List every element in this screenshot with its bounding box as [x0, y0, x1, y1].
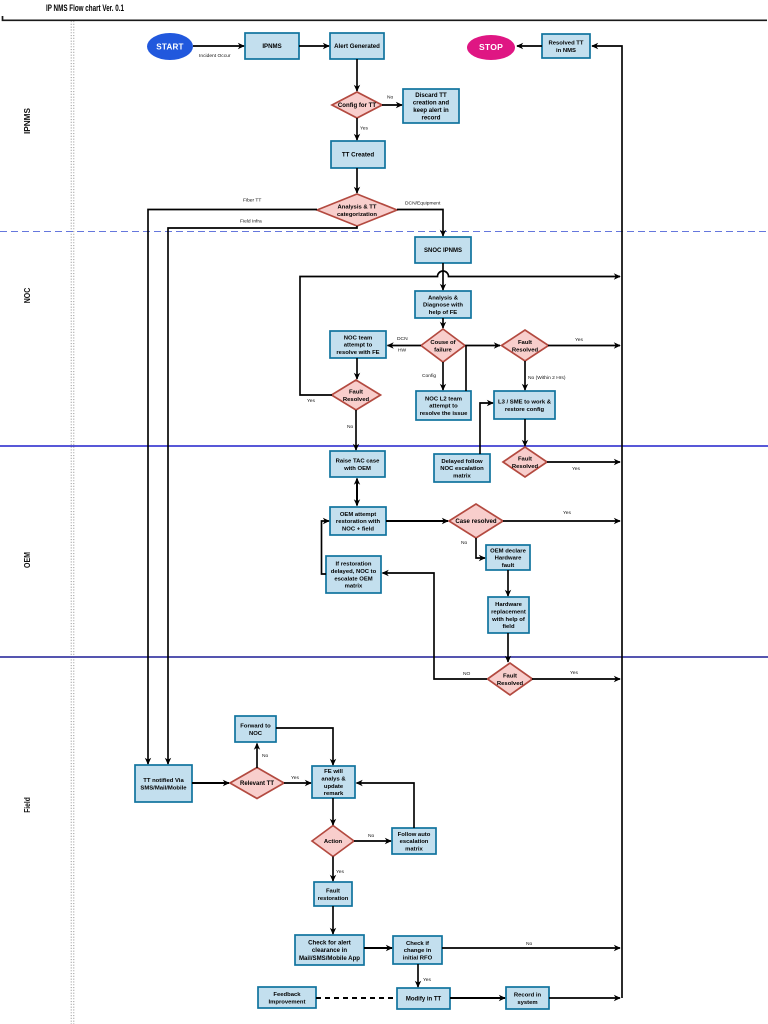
svg-text:Config: Config — [422, 373, 436, 379]
svg-text:Yes: Yes — [307, 398, 316, 404]
box: Raise TAC case with OEM — [330, 451, 385, 477]
svg-text:TT notified Via: TT notified Via — [143, 778, 184, 784]
svg-text:Config for TT: Config for TT — [338, 102, 377, 109]
svg-text:escalate OEM: escalate OEM — [334, 576, 372, 582]
wire: Forward to NOC to FE will box — [276, 728, 333, 765]
svg-text:SNOC IPNMS: SNOC IPNMS — [424, 248, 462, 254]
svg-text:Improvement: Improvement — [269, 999, 306, 1005]
lane divider IPNMS/NOC (dashed blue) — [0, 231, 768, 233]
svg-text:STOP: STOP — [479, 42, 503, 52]
wire: Check for alert to Check if change — [364, 947, 392, 949]
terminal: START — [147, 33, 193, 60]
svg-text:failure: failure — [434, 347, 452, 353]
svg-text:Fault: Fault — [503, 673, 517, 679]
wire: Resolved TT to STOP — [517, 45, 542, 47]
box: Alert Generated — [330, 33, 384, 59]
svg-text:in NMS: in NMS — [556, 48, 576, 54]
box: Fault restoration — [314, 882, 352, 906]
svg-text:clearance in: clearance in — [312, 947, 348, 954]
wire: Couse of failure DCN/HW to NOC team — [388, 336, 422, 354]
lane label: OEM — [22, 552, 32, 568]
svg-text:Resolved TT: Resolved TT — [548, 41, 583, 47]
svg-text:restoration with: restoration with — [336, 519, 381, 525]
svg-text:Discard TT: Discard TT — [415, 92, 447, 99]
decision: Analysis & TT categorization — [317, 194, 397, 226]
wire: Check if change Yes to Modify in TT — [418, 964, 432, 987]
box: NOC L2 team attempt to resolve the issue — [416, 391, 471, 420]
svg-text:with OEM: with OEM — [343, 466, 371, 472]
lane label: NOC — [22, 288, 32, 304]
box: Delayed follow NOC escalation matrix — [434, 454, 490, 482]
svg-text:START: START — [156, 42, 183, 51]
lane divider NOC/OEM (solid blue) — [0, 445, 768, 447]
svg-text:attempt to: attempt to — [344, 343, 373, 349]
svg-text:system: system — [517, 1000, 537, 1006]
svg-text:Action: Action — [324, 839, 343, 845]
box: Check if change in initial RFO — [393, 936, 442, 964]
wire: OEM attempt to Case resolved — [386, 520, 448, 522]
wire: Case resolved Yes to collector — [503, 510, 620, 521]
wire: FE will box to Action — [332, 798, 334, 825]
decision: Action — [312, 826, 354, 857]
svg-text:Yes: Yes — [575, 337, 584, 343]
box: Forward to NOC — [235, 716, 276, 742]
box: SNOC IPNMS — [415, 237, 471, 263]
wire: Analysis & Diagnose to Couse of failure — [442, 318, 444, 328]
box: Analysis & Diagnose with help of FE — [415, 291, 471, 318]
svg-text:DCN/Equipment: DCN/Equipment — [405, 201, 441, 207]
terminal: STOP — [467, 35, 515, 60]
decision: Config for TT — [332, 92, 382, 118]
wire: NOC team to Fault Resolved (NOC team) — [356, 358, 358, 379]
wire: Modify in TT to Record in system — [450, 997, 505, 999]
svg-text:IP NMS Flow chart Ver. 0.1: IP NMS Flow chart Ver. 0.1 — [46, 3, 124, 13]
wire: Couse of failure Config to NOC L2 team — [422, 362, 443, 390]
svg-text:Analysis & TT: Analysis & TT — [338, 204, 377, 210]
wire: If restoration loop to OEM attempt — [322, 521, 330, 574]
svg-text:NOC + field: NOC + field — [342, 526, 374, 532]
wire: Fault Resolved (NOC FE) Yes to collector — [548, 337, 620, 346]
svg-text:OEM declare: OEM declare — [490, 548, 526, 554]
decision: Relevant TT — [230, 768, 284, 799]
box: OEM attempt restoration with NOC + field — [330, 507, 386, 535]
svg-text:record: record — [422, 114, 441, 121]
svg-text:Analysis &: Analysis & — [428, 295, 459, 301]
box: TT notified Via SMS/Mail/Mobile — [135, 765, 192, 802]
svg-text:OEM: OEM — [22, 552, 32, 568]
box: FE will analys & update remark — [312, 766, 355, 798]
svg-text:Diagnose with: Diagnose with — [423, 303, 463, 309]
box: Discard TT creation and keep alert in record — [403, 89, 459, 123]
svg-text:Resolved: Resolved — [512, 464, 539, 470]
svg-text:update: update — [324, 784, 344, 790]
svg-text:creation and: creation and — [413, 99, 450, 106]
wire: SNOC IPNMS down to Analysis & Diagnose — [442, 263, 444, 290]
svg-text:NOC: NOC — [249, 731, 263, 737]
wire: Fault Resolved (NOC FE) No to L3/SME — [525, 361, 566, 390]
svg-text:analys &: analys & — [321, 777, 346, 783]
svg-text:NOC team: NOC team — [344, 335, 372, 341]
svg-text:restore config: restore config — [505, 407, 545, 413]
svg-text:Record in: Record in — [514, 993, 542, 999]
box: L3 / SME to work & restore config — [494, 391, 555, 419]
box: TT Created — [331, 141, 385, 168]
svg-text:Fault: Fault — [349, 389, 363, 395]
box: Record in system — [506, 987, 549, 1009]
svg-text:Field Infra: Field Infra — [240, 219, 262, 225]
svg-text:Fiber TT: Fiber TT — [243, 198, 261, 204]
svg-text:Yes: Yes — [570, 670, 579, 676]
svg-text:NOC escalation: NOC escalation — [440, 466, 484, 472]
svg-text:OEM attempt: OEM attempt — [340, 512, 376, 518]
lane label: Field — [22, 797, 32, 813]
lane label: IPNMS — [22, 108, 32, 134]
svg-text:Fault: Fault — [518, 456, 532, 462]
svg-text:Yes: Yes — [563, 510, 572, 516]
decision: Fault Resolved (NOC FE) — [502, 330, 549, 361]
decision: Case resolved — [449, 504, 503, 538]
svg-text:restoration: restoration — [318, 896, 349, 902]
box: Feedback Improvement — [258, 987, 316, 1008]
svg-text:No (Within 2 Hrs): No (Within 2 Hrs) — [528, 375, 566, 381]
svg-text:Couse of: Couse of — [430, 340, 455, 346]
wire: TT notified to Relevant TT — [192, 782, 229, 784]
wire: OEM declare to Hardware replacement — [507, 570, 509, 596]
svg-text:remark: remark — [324, 791, 344, 797]
svg-text:NOC: NOC — [22, 288, 32, 304]
svg-text:HW: HW — [398, 348, 407, 354]
svg-text:No: No — [347, 424, 354, 430]
wire: Config for TT No to Discard TT — [382, 95, 402, 106]
wire: Fault Resolved (OEM) NO loop to If restoration — [383, 573, 488, 679]
svg-text:change in: change in — [404, 948, 432, 954]
svg-text:attempt to: attempt to — [429, 404, 458, 410]
svg-text:Fault: Fault — [326, 889, 340, 895]
svg-text:No: No — [526, 941, 533, 947]
svg-text:Incident Occur: Incident Occur — [199, 53, 231, 59]
svg-text:No: No — [387, 95, 394, 101]
svg-text:NO: NO — [463, 671, 471, 677]
box: OEM declare Hardware fault — [486, 545, 530, 570]
svg-text:L3 / SME to work &: L3 / SME to work & — [498, 400, 552, 406]
wire: Check if change No to collector — [442, 941, 620, 948]
wire: Action No to Follow auto — [354, 833, 391, 841]
box: Resolved TT in NMS — [542, 34, 590, 58]
svg-text:initial RFO: initial RFO — [403, 955, 433, 961]
svg-text:Raise TAC case: Raise TAC case — [336, 459, 380, 465]
box: Check for alert clearance in Mail/SMS/Mobile App — [295, 935, 364, 965]
svg-text:escalation: escalation — [400, 839, 429, 845]
box: IPNMS — [245, 33, 299, 59]
wire: Feedback Improvement to Modify in TT (dashed) — [316, 997, 397, 999]
svg-text:keep alert in: keep alert in — [413, 107, 449, 114]
svg-text:matrix: matrix — [345, 584, 363, 590]
wire: Fault Resolved (L3) Yes to collector — [547, 462, 620, 472]
box: If restoration delayed, NOC to escalate OEM matrix — [326, 556, 381, 593]
title: IP NMS Flow chart Ver. 0.1 — [46, 3, 124, 13]
svg-text:Yes: Yes — [336, 869, 345, 875]
svg-text:Feedback: Feedback — [273, 992, 301, 998]
svg-text:Case resolved: Case resolved — [455, 518, 497, 525]
svg-text:Yes: Yes — [360, 126, 369, 132]
wire: collector line to Resolved TT in NMS — [592, 46, 622, 998]
wire: Follow auto loop to FE will box — [357, 783, 415, 828]
wire: Raise TAC and OEM attempt (double arrow) — [356, 479, 358, 506]
svg-text:No: No — [368, 833, 375, 839]
svg-text:resolve with FE: resolve with FE — [336, 350, 379, 356]
box: Modify in TT — [397, 988, 450, 1009]
wire: Relevant TT No to Forward to NOC — [257, 744, 269, 769]
svg-text:field: field — [502, 624, 515, 630]
svg-text:Follow auto: Follow auto — [398, 832, 431, 838]
svg-text:help of FE: help of FE — [429, 310, 458, 316]
wire: Analysis Field Infra to TT notified — [168, 219, 357, 765]
svg-text:replacement: replacement — [491, 610, 526, 616]
svg-text:TT Created: TT Created — [342, 152, 375, 159]
wire: Hardware replacement to Fault Resolved (OEM) — [507, 633, 509, 662]
box: NOC team attempt to resolve with FE — [330, 331, 386, 358]
wire: Delayed follow to L3/SME — [480, 403, 493, 454]
svg-text:IPNMS: IPNMS — [22, 108, 32, 134]
svg-text:If restoration: If restoration — [335, 562, 371, 568]
svg-text:matrix: matrix — [405, 846, 423, 852]
decision: Fault Resolved (L3) — [503, 447, 547, 477]
svg-text:Resolved: Resolved — [497, 681, 524, 687]
svg-text:with help of: with help of — [491, 617, 525, 623]
svg-text:Modify in TT: Modify in TT — [406, 997, 442, 1003]
svg-text:Yes: Yes — [291, 775, 300, 781]
svg-text:Hardware: Hardware — [495, 556, 523, 562]
svg-text:SMS/Mail/Mobile: SMS/Mail/Mobile — [140, 785, 187, 791]
svg-text:Resolved: Resolved — [512, 347, 539, 353]
wire: TT Created to Analysis & TT categorization — [356, 168, 358, 193]
svg-text:FE will: FE will — [324, 769, 343, 775]
svg-text:matrix: matrix — [453, 473, 471, 479]
svg-text:Delayed follow: Delayed follow — [441, 459, 483, 465]
wire: Fault Resolved (NOC team) No to Raise TAC — [347, 410, 356, 450]
svg-text:resolve the issue: resolve the issue — [420, 411, 469, 417]
svg-text:No: No — [262, 753, 269, 759]
title underline — [3, 16, 768, 20]
svg-text:Forward to: Forward to — [240, 724, 271, 730]
decision: Fault Resolved (NOC team) — [332, 380, 381, 410]
box: Hardware replacement with help of field — [488, 597, 529, 633]
wire: IPNMS to Alert Generated — [299, 45, 329, 47]
svg-text:Hardware: Hardware — [495, 602, 523, 608]
svg-text:IPNMS: IPNMS — [262, 43, 281, 50]
wire: Fault Resolved (NOC team) Yes loop to collector (hops over vertical) — [300, 271, 620, 404]
wire: Analysis Fiber TT to TT notified — [148, 198, 317, 765]
svg-text:Check for alert: Check for alert — [308, 940, 351, 947]
svg-text:No: No — [461, 540, 468, 546]
svg-text:Field: Field — [22, 797, 32, 813]
svg-text:delayed, NOC to: delayed, NOC to — [331, 569, 377, 575]
wire: Fault restoration to Check for alert — [332, 906, 334, 934]
wire: Record in system to collector — [549, 997, 620, 999]
wire: Alert Generated to Config for TT — [356, 59, 358, 91]
svg-text:Alert Generated: Alert Generated — [334, 43, 380, 50]
svg-text:Mail/SMS/Mobile App: Mail/SMS/Mobile App — [299, 955, 360, 962]
wire: Relevant TT Yes to FE will box — [284, 775, 311, 783]
svg-text:Resolved: Resolved — [343, 397, 370, 403]
svg-text:Relevant TT: Relevant TT — [240, 781, 274, 787]
svg-text:Check if: Check if — [406, 941, 429, 947]
svg-text:Yes: Yes — [572, 466, 581, 472]
svg-text:DCN: DCN — [397, 336, 408, 342]
wire: NOC L2 team to Fault Resolved (NOC FE) — [466, 346, 500, 392]
lane divider OEM/Field (solid blue) — [0, 656, 768, 658]
svg-text:Yes: Yes — [423, 977, 432, 983]
svg-text:NOC L2 team: NOC L2 team — [425, 396, 462, 402]
wire: Action Yes to Fault restoration — [333, 857, 345, 882]
decision: Fault Resolved (OEM) — [488, 663, 533, 695]
svg-text:fault: fault — [502, 563, 514, 569]
wire: Case resolved No to OEM declare — [461, 538, 485, 558]
decision: Couse of failure — [421, 329, 465, 362]
wire: Fault Resolved (OEM) Yes to collector — [532, 670, 620, 679]
svg-text:Fault: Fault — [518, 340, 532, 346]
svg-text:categorization: categorization — [337, 212, 377, 218]
wire: START to IPNMS — [193, 46, 244, 59]
wire: L3/SME to Fault Resolved (L3) — [524, 419, 526, 446]
box: Follow auto escalation matrix — [392, 828, 436, 854]
wire: Analysis DCN/Equipment to SNOC IPNMS — [397, 201, 443, 237]
swimlane dotted separator (double dotted vertical line) — [71, 21, 74, 1024]
wire: Config for TT Yes to TT Created — [357, 118, 369, 140]
